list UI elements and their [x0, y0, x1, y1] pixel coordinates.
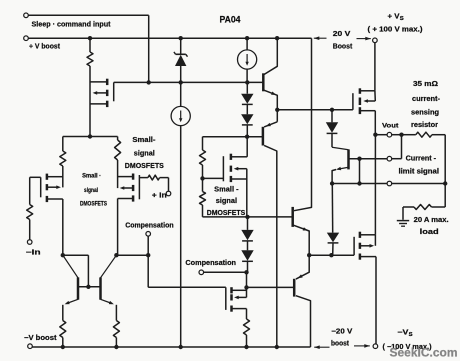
wire M4 gate tap — [203, 177, 224, 179]
svg-text:PA04: PA04 — [220, 15, 242, 25]
wire Q7 base line — [349, 158, 388, 160]
wire mirror base tie — [78, 286, 101, 288]
wire Vout rail down — [374, 135, 376, 235]
junction y217 at diode column — [245, 215, 249, 219]
wire sleep input vertical drop — [148, 15, 150, 82]
junction sense left — [399, 133, 403, 137]
junction Vout node — [373, 133, 377, 137]
node current-limit terminal — [387, 156, 392, 161]
zener diode Z1 — [174, 38, 188, 106]
wire 20V boost rail — [294, 38, 312, 211]
wire M7 source to -Vs — [375, 257, 377, 344]
transistor Q2 upper driver PNP — [263, 122, 277, 347]
svg-text:+ In: + In — [152, 192, 167, 199]
resistor R8 mid upper — [200, 137, 206, 179]
current source I2 — [171, 106, 190, 125]
diode D5 — [326, 110, 338, 134]
watermark SeekIC.com — [390, 345, 458, 359]
label 35mohm current sensing resistor — [411, 81, 441, 129]
wire compensation-1 drop — [147, 236, 149, 287]
junction bus at sleep drop — [147, 80, 151, 84]
wire M2 source down — [62, 199, 64, 255]
wire bias bus y82 — [149, 81, 263, 83]
wire y136 right bus — [203, 136, 263, 138]
svg-text:Small ·: Small · — [82, 173, 101, 180]
label PA04 title — [220, 15, 242, 25]
svg-text:+ V: + V — [388, 11, 400, 20]
wire M6 source to Vout — [374, 111, 376, 135]
label -In — [26, 250, 41, 257]
transistor M7 output DMOSFET lower — [354, 232, 376, 260]
resistor R2 left input load — [60, 137, 66, 188]
node -In terminal — [27, 240, 32, 245]
wire +V boost top rail — [28, 37, 311, 39]
svg-text:signal: signal — [216, 196, 237, 205]
node compensation-2 terminal — [199, 270, 204, 275]
wire M4 drain up — [246, 137, 248, 157]
node +In terminal — [166, 191, 171, 196]
resistor R10 M5 source — [244, 309, 250, 347]
label +Vs — [388, 11, 405, 22]
transistor M6 output DMOSFET upper — [353, 88, 375, 114]
svg-text:−V boost: −V boost — [24, 335, 57, 342]
junction top rail at Q1 collector — [275, 36, 279, 40]
node -Vs terminal — [373, 344, 378, 349]
junction M2 source Q5 collector — [61, 253, 65, 257]
wire M1 gate to sleep bus — [114, 81, 149, 83]
junction y183 at Q7 emitter — [330, 181, 334, 185]
svg-text:Current -: Current - — [406, 155, 437, 162]
junction y183 at load rail — [443, 181, 447, 185]
transistor M4 small-signal DMOSFET mid — [223, 154, 247, 182]
svg-text:sensing: sensing — [411, 110, 439, 117]
junction bottom rail R6 — [61, 345, 65, 349]
resistor R9 mid lower — [200, 178, 206, 217]
junction Q3 Q4 emitters lower gate node — [307, 253, 311, 257]
junction upper gate at D5 — [330, 108, 334, 112]
wire mirror left top — [63, 254, 89, 256]
label +V boost — [29, 41, 61, 50]
svg-text:Compensation: Compensation — [185, 258, 236, 267]
svg-text:( + 100 V max.): ( + 100 V max.) — [368, 26, 423, 33]
svg-text:Small-: Small- — [132, 135, 156, 144]
junction M1 source at y136 — [88, 134, 92, 138]
svg-text:signal: signal — [134, 148, 155, 157]
node +V boost terminal — [24, 36, 29, 41]
label current-limit signal — [399, 155, 440, 175]
wire load rail — [444, 135, 446, 207]
svg-text:−20 V: −20 V — [331, 328, 352, 335]
wire sleep input horizontal — [28, 14, 148, 16]
label 20A max load — [414, 217, 449, 236]
wire bottom rail -20V boost — [32, 346, 310, 348]
resistor R3 right input load — [115, 137, 121, 189]
svg-text:DMOSFETS: DMOSFETS — [125, 161, 164, 170]
resistor R6 mirror left emitter — [60, 321, 66, 348]
wire mirror base tap — [87, 255, 89, 287]
junction top rail at R1 — [88, 36, 92, 40]
junction top rail at zener — [179, 36, 183, 40]
transistor Q7 current limit — [332, 133, 349, 183]
svg-text:load: load — [420, 229, 439, 236]
svg-text:DMOSFETS: DMOSFETS — [207, 208, 245, 217]
svg-text:+ V boost: + V boost — [29, 41, 61, 50]
wire limit tap down — [359, 159, 361, 184]
wire compensation-2 to diode column — [204, 271, 247, 273]
diode D2 — [241, 104, 253, 136]
junction bottom rail R10 — [244, 345, 248, 349]
junction R8 R9 gate tap — [200, 176, 204, 180]
junction M5 drain node — [244, 285, 248, 289]
node limit return terminal — [387, 181, 392, 186]
svg-text:Boost: Boost — [333, 43, 353, 50]
label 20V boost with arrows — [314, 31, 371, 50]
transistor Q6 mirror right — [101, 255, 117, 320]
transistor Q4 lower driver PNP — [294, 255, 310, 347]
wire M3 source down — [117, 199, 119, 256]
junction lower gate at D6 — [329, 253, 333, 257]
wire Vout line left — [375, 134, 387, 136]
junction y183 at limit tap — [357, 181, 361, 185]
resistor R11 current sensing — [402, 132, 446, 137]
transistor M5 compensation clamp DMOSFET — [226, 287, 247, 312]
label small-signal DMOSFETS left — [80, 173, 107, 208]
junction comp2 node — [244, 270, 248, 274]
wire lower gate line — [309, 254, 354, 256]
svg-text:limit signal: limit signal — [399, 169, 440, 176]
current source I1 — [238, 38, 257, 82]
svg-text:Vout: Vout — [382, 122, 399, 129]
svg-text:current-: current- — [412, 96, 441, 103]
transistor M1 sleep-switch DMOSFET — [90, 79, 114, 107]
label -Vs — [397, 328, 413, 339]
svg-text:20 A max.: 20 A max. — [414, 217, 449, 224]
wire upper gate line — [277, 109, 353, 111]
svg-text:35 mΩ: 35 mΩ — [413, 81, 438, 88]
node Vout terminal — [387, 132, 392, 137]
wire y217 bus to Q3 base — [203, 216, 293, 218]
node -V boost terminal — [28, 344, 33, 349]
diode D1 — [241, 82, 253, 104]
svg-text:resistor: resistor — [411, 122, 438, 129]
junction comp1 and mirror line — [146, 253, 150, 257]
label +In — [152, 192, 167, 199]
junction bottom rail Q2 collector — [275, 345, 279, 349]
svg-text:Small -: Small - — [214, 185, 239, 194]
wire compensation-1 to M5 gate — [148, 286, 226, 288]
junction bottom rail R7 — [114, 345, 118, 349]
label Vout — [382, 122, 399, 129]
junction M3 source Q6 collector — [114, 253, 118, 257]
junction top rail at current source — [245, 36, 249, 40]
node +Vs terminal — [373, 38, 378, 43]
diode D3 — [241, 217, 253, 241]
wire Vout line right — [392, 134, 402, 136]
wire left drain bus y136 — [63, 136, 118, 138]
junction bus at zener column — [179, 80, 183, 84]
wire M4 source down — [246, 169, 248, 217]
label compensation-2 — [185, 258, 236, 267]
transistor Q1 upper driver NPN — [263, 38, 277, 122]
resistor R5 +In gate — [139, 175, 168, 191]
svg-text:20 V: 20 V — [333, 31, 351, 38]
wire mirror right top — [116, 254, 148, 256]
svg-text:SeekIC.com: SeekIC.com — [390, 345, 458, 359]
transistor Q5 mirror left — [63, 255, 78, 320]
label -V boost — [24, 335, 57, 342]
svg-text:DMOSFETS: DMOSFETS — [80, 201, 107, 208]
svg-text:Compensation: Compensation — [125, 221, 173, 230]
transistor M3 input DMOSFET right — [118, 174, 140, 202]
label -20V boost with arrows — [314, 328, 370, 349]
node sleep-command input terminal — [24, 13, 29, 18]
wire sense tap down — [392, 135, 402, 159]
svg-text:boost: boost — [331, 341, 350, 348]
resistor R7 mirror right emitter — [113, 321, 119, 348]
wire y183 line left — [332, 183, 387, 185]
wire zener column to bottom rail — [180, 125, 182, 347]
wire y183 line right — [392, 183, 446, 185]
wire Q4 base line — [247, 286, 295, 288]
junction mid bus at diode column — [245, 135, 249, 139]
label sleep-command input — [32, 20, 112, 29]
junction Q7 base tap — [357, 157, 361, 161]
diode D6 — [327, 184, 339, 256]
svg-text:signal: signal — [84, 187, 98, 194]
svg-text:Sleep · command input: Sleep · command input — [32, 20, 112, 29]
transistor M2 input DMOSFET left — [30, 174, 63, 203]
svg-text:−V: −V — [397, 328, 408, 337]
label compensation-1 — [125, 221, 173, 230]
junction Q1 Q2 emitters gate node — [275, 108, 279, 112]
svg-text:−In: −In — [26, 250, 41, 257]
junction bottom rail zener column — [179, 345, 183, 349]
diode D4 — [241, 241, 253, 272]
node compensation-1 terminal — [146, 232, 151, 237]
ground symbol — [397, 207, 409, 226]
label small-signal DMOSFETS upper — [125, 135, 164, 170]
junction bus at current source column — [245, 80, 249, 84]
resistor R4 -In gate — [27, 177, 33, 239]
wire +Vs drop — [374, 43, 376, 91]
label +100V max — [368, 26, 423, 33]
wire comp node down — [246, 272, 248, 297]
resistor R12 load — [403, 205, 445, 210]
junction mirror base — [86, 285, 90, 289]
label small-signal DMOSFETS mid — [207, 185, 245, 217]
label -100V max — [383, 344, 432, 351]
transistor Q3 lower driver NPN — [293, 207, 310, 255]
resistor R1 sleep drain load — [87, 38, 93, 136]
